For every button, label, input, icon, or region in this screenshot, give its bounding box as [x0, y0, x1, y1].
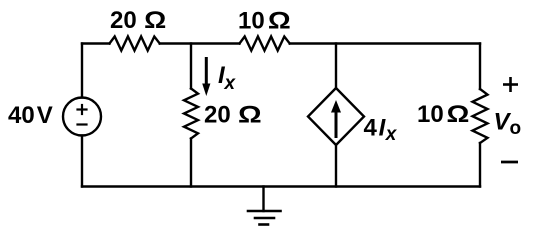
label 10Ω value of R4 — [417, 100, 469, 128]
resistor R4 10Ω vertical zigzag — [473, 89, 488, 143]
svg-text:Ω: Ω — [447, 100, 470, 127]
wire right lower (R4 to bottom-right corner) — [479, 143, 481, 187]
wire dependent-source branch lower — [335, 145, 337, 187]
label 10Ω value of R2 — [238, 7, 291, 35]
ground bar 1 — [248, 210, 281, 213]
ground stem — [262, 187, 264, 212]
svg-text:10: 10 — [417, 101, 444, 128]
label 20Ω value of R1 — [110, 7, 166, 34]
wire top right (R2 to node c to top-right corner) — [290, 42, 480, 44]
voltage source minus sign — [78, 123, 87, 125]
svg-text:Ω: Ω — [144, 8, 166, 34]
label minus polarity of Vo — [501, 161, 518, 164]
resistor R3 20Ω vertical zigzag — [184, 89, 198, 139]
wire dependent-source branch upper — [335, 44, 337, 89]
ground bar 3 — [260, 223, 269, 226]
label Ix current name — [218, 62, 237, 94]
voltage source plus sign — [78, 105, 87, 114]
wire top-left horizontal (node a to R1) — [82, 42, 110, 44]
label plus polarity of Vo — [503, 77, 518, 92]
current arrow Ix annotation — [202, 57, 210, 96]
resistor R2 10Ω top zigzag — [240, 37, 290, 51]
svg-text:40V: 40V — [8, 102, 53, 129]
voltage source V1 40V circle — [63, 98, 101, 136]
svg-text:x: x — [224, 73, 237, 94]
svg-text:4: 4 — [364, 115, 378, 142]
wire bottom (full bottom rail) — [82, 185, 480, 187]
label 4Ix value of dependent source — [364, 115, 398, 146]
resistor R1 20Ω top-left zigzag — [110, 37, 160, 51]
ground bar 2 — [255, 217, 274, 220]
wire left upper (top-left corner down to source) — [81, 44, 83, 98]
svg-text:20: 20 — [204, 102, 231, 129]
svg-text:Ω: Ω — [268, 7, 291, 34]
label 20Ω value of R3 — [204, 101, 262, 128]
svg-text:20: 20 — [110, 7, 137, 34]
svg-text:o: o — [510, 118, 522, 139]
wire top middle (R1 to node b to R2) — [160, 42, 240, 44]
svg-text:Ω: Ω — [238, 101, 262, 128]
label Vo output voltage — [494, 109, 522, 140]
svg-text:x: x — [385, 124, 398, 145]
wire middle branch upper (node b down to R3) — [190, 44, 192, 89]
dependent current source diamond 4Ix — [308, 88, 364, 145]
wire middle branch lower (R3 to bottom rail) — [190, 139, 192, 187]
wire right upper (top-right corner to R4) — [479, 44, 481, 90]
dependent source internal up arrow — [331, 100, 341, 138]
svg-text:10: 10 — [238, 8, 265, 35]
wire left lower (source to bottom-left corner) — [81, 136, 83, 187]
